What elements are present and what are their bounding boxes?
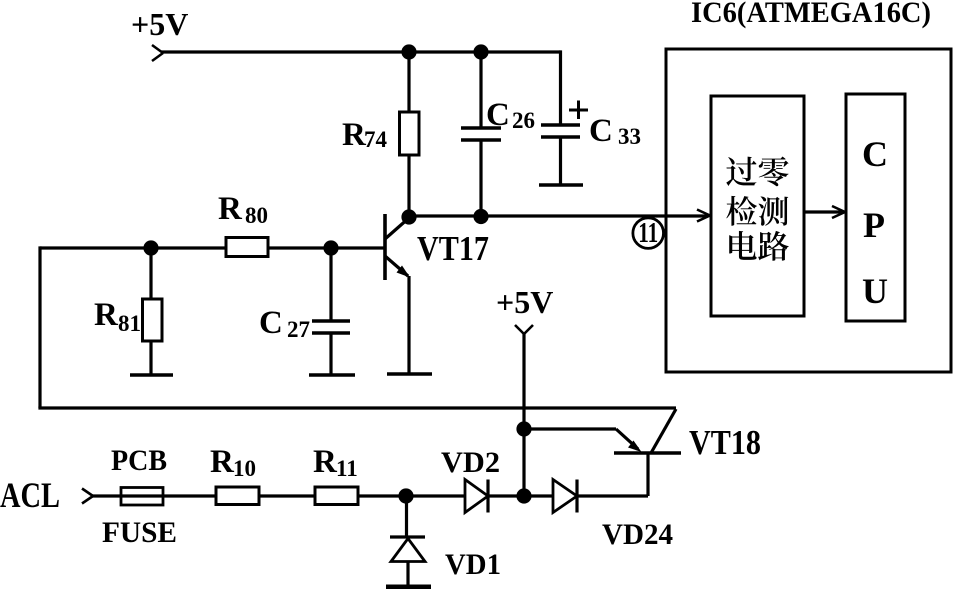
svg-text:C: C (259, 305, 283, 341)
label zero-cross line1 (726, 157, 756, 186)
wire zero-cross to CPU (804, 210, 843, 213)
ground C33 (539, 183, 583, 187)
svg-text:R: R (210, 444, 235, 480)
diode VD1 (390, 535, 425, 538)
svg-text:33: 33 (618, 124, 641, 149)
wire VT18 emitter lead (524, 427, 616, 430)
node collector-R74 junction (401, 209, 416, 224)
capacitor C27 (312, 319, 350, 323)
supply arrow (mid +5V) (515, 325, 533, 334)
wire C27 bottom lead (329, 333, 332, 375)
resistor R80 (226, 238, 268, 257)
svg-text:ACL: ACL (0, 475, 60, 515)
svg-text:VT18: VT18 (689, 423, 761, 462)
svg-text:R: R (218, 191, 243, 227)
node VD1 junction (398, 488, 413, 503)
svg-text:80: 80 (245, 203, 268, 228)
node base-R81 junction (143, 240, 158, 255)
node VD2-+5V junction (516, 488, 531, 503)
svg-text:FUSE: FUSE (102, 516, 177, 549)
supply arrow (top +5V) (152, 45, 163, 61)
diode VD2 (465, 480, 488, 513)
capacitor C33 (541, 123, 580, 127)
diode VD24 (553, 480, 577, 513)
svg-text:11: 11 (638, 218, 658, 249)
transistor VT18 base bar (614, 451, 681, 455)
svg-text:C: C (589, 113, 613, 149)
transistor VT17 base bar (383, 214, 387, 280)
node rail-C26 junction (473, 44, 488, 59)
svg-text:P: P (863, 205, 885, 245)
wire VT17 collector rail (409, 214, 708, 217)
capacitor C33 polarity + (569, 101, 588, 120)
svg-text:IC6(ATMEGA16C): IC6(ATMEGA16C) (691, 0, 931, 29)
wire VD1 bottom lead (406, 561, 409, 585)
ground VD1 (386, 585, 431, 589)
wire R81 bottom lead (149, 341, 152, 375)
wire feedback left vertical (38, 246, 41, 408)
wire mains row (91, 494, 648, 497)
wire +5V top rail (161, 50, 561, 53)
IC U1 box IC6 (666, 49, 951, 372)
svg-text:R: R (94, 297, 119, 333)
svg-text:26: 26 (512, 108, 535, 133)
ground C27 (309, 373, 355, 377)
svg-text:VT17: VT17 (417, 229, 489, 268)
resistor R10 (216, 487, 259, 505)
wire feedback bottom (38, 406, 676, 409)
svg-text:27: 27 (287, 317, 310, 342)
svg-text:+5V: +5V (496, 284, 553, 320)
ground VT17 emitter (387, 372, 432, 376)
svg-text:11: 11 (336, 456, 358, 481)
wire base rail (40, 246, 385, 249)
svg-text:74: 74 (364, 127, 388, 152)
wire rail corner to C33 (559, 50, 562, 125)
wire C26 top lead (479, 52, 482, 128)
wire C26 bottom lead (479, 140, 482, 217)
svg-text:U: U (862, 271, 888, 311)
svg-text:C: C (862, 134, 888, 174)
wire R74 top lead (407, 52, 410, 113)
arrowhead into CPU (832, 206, 845, 218)
node base-C27 junction (323, 240, 338, 255)
svg-text:PCB: PCB (111, 444, 167, 477)
input arrow (ACL) (82, 489, 93, 504)
svg-text:81: 81 (118, 311, 141, 336)
node collector-C26 junction (473, 209, 488, 224)
wire VT17 emitter lead (407, 276, 410, 374)
wire R81 top lead (149, 248, 152, 299)
resistor R11 (315, 487, 358, 505)
wire R74 bottom lead (407, 155, 410, 218)
svg-text:10: 10 (233, 456, 256, 481)
transistor VT17 emitter (385, 256, 408, 276)
transistor VT18 emitter (616, 429, 638, 449)
svg-text:+5V: +5V (131, 6, 188, 42)
svg-text:VD2: VD2 (441, 446, 500, 479)
svg-text:VD1: VD1 (445, 548, 501, 581)
capacitor C26 (461, 126, 501, 130)
resistor R81 (143, 299, 163, 341)
wire +5V drop (522, 333, 525, 496)
svg-text:C: C (486, 97, 510, 133)
transistor VT18 collector (651, 409, 676, 453)
label zero-cross line3 (729, 231, 756, 260)
transistor VT17 collector (385, 217, 410, 239)
wire VT18 base lead (646, 453, 649, 496)
node VT18 emitter junction (516, 421, 531, 436)
wire C33 bottom lead (559, 137, 562, 185)
arrowhead into zero-cross box (697, 210, 710, 222)
wire C27 top lead (329, 248, 332, 321)
pin 11 bubble (633, 218, 664, 249)
block CPU box (846, 94, 905, 321)
label zero-cross line2 (726, 196, 757, 226)
block zero-cross detector box (711, 96, 804, 316)
wire VD1 top lead (405, 496, 408, 537)
svg-text:R: R (313, 444, 338, 480)
ground R81 (130, 373, 173, 377)
svg-text:VD24: VD24 (602, 518, 673, 551)
node rail-R74 junction (401, 44, 416, 59)
resistor R74 (400, 112, 420, 155)
fuse PCB FUSE (121, 488, 163, 506)
